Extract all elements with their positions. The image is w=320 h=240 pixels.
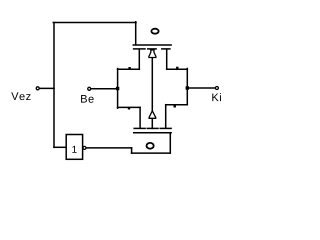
wire Q1 gate feed drop — [135, 22, 137, 45]
transistor Q1 channel segment middle — [148, 48, 156, 50]
wire Q2 drain riser (right) — [165, 105, 167, 128]
inverter U1 box — [66, 135, 82, 160]
marker ellipse below Q2 — [147, 143, 154, 149]
node label Ki — [212, 93, 221, 101]
wire Vez vertical bus (left) — [53, 23, 55, 148]
junction dot left bottom bracket — [128, 107, 130, 109]
wire inverter output to Q2 gate loop — [86, 147, 132, 149]
terminal node Be (open circle) — [88, 87, 91, 90]
wire left top bracket — [118, 68, 140, 70]
wire left rail (Be side) — [117, 69, 119, 109]
wire Q1 drain drop (right) — [166, 50, 168, 69]
wire Q2 gate loop left drop — [131, 148, 133, 153]
transistor Q2 channel segment middle — [147, 127, 158, 129]
wire Q2 gate loop bottom — [132, 152, 171, 154]
gate label 1 (inverter function) — [72, 146, 76, 153]
wire Q2 bulk stem (arrow base to channel) — [151, 118, 153, 128]
wire right bottom bracket — [166, 104, 188, 106]
wire Be stub — [91, 88, 118, 90]
wire right rail (Ki side) — [186, 69, 188, 105]
wire Vez stub — [39, 87, 54, 89]
wire right top bracket — [167, 68, 188, 70]
terminal node Vez (open circle) — [36, 87, 39, 90]
transistor Q2 bulk arrow (points up away from channel = P-channel) — [149, 111, 156, 119]
node label Vez — [11, 92, 30, 100]
wire left bottom bracket — [118, 106, 141, 108]
transistor Q2 gate bar — [134, 132, 171, 134]
transistor Q2 channel segment right — [160, 127, 171, 129]
transistor Q2 channel segment left — [134, 127, 145, 129]
wire bulk tie (Q1 bulk to Q2 bulk) — [151, 58, 153, 112]
wire inverter input (from Vez bus) — [54, 146, 66, 148]
junction dot right top bracket — [176, 67, 178, 69]
junction dot Be-rail — [116, 87, 119, 90]
transistor Q1 channel segment left — [134, 48, 145, 50]
junction dot left top bracket — [128, 67, 130, 69]
wire Q2 gate loop right riser — [169, 133, 171, 153]
transistor Q1 channel segment right — [162, 48, 170, 50]
wire Q2 source riser (left) — [139, 107, 141, 127]
junction dot Ki-rail — [186, 86, 189, 89]
transistor Q1 gate bar — [133, 44, 171, 46]
node label Be — [81, 95, 94, 103]
transistor Q1 bulk arrow (points up into channel = N-channel) — [149, 50, 156, 58]
terminal node U1 output (open circle) — [83, 146, 86, 149]
wire top horizontal (Vez to Q1 gate) — [53, 22, 136, 24]
wire Ki stub — [187, 87, 216, 89]
terminal node Ki (open circle) — [215, 87, 218, 90]
wire Q1 source drop (left) — [138, 50, 140, 70]
junction dot right bottom bracket — [174, 105, 176, 107]
marker ellipse above Q1 — [151, 29, 158, 34]
